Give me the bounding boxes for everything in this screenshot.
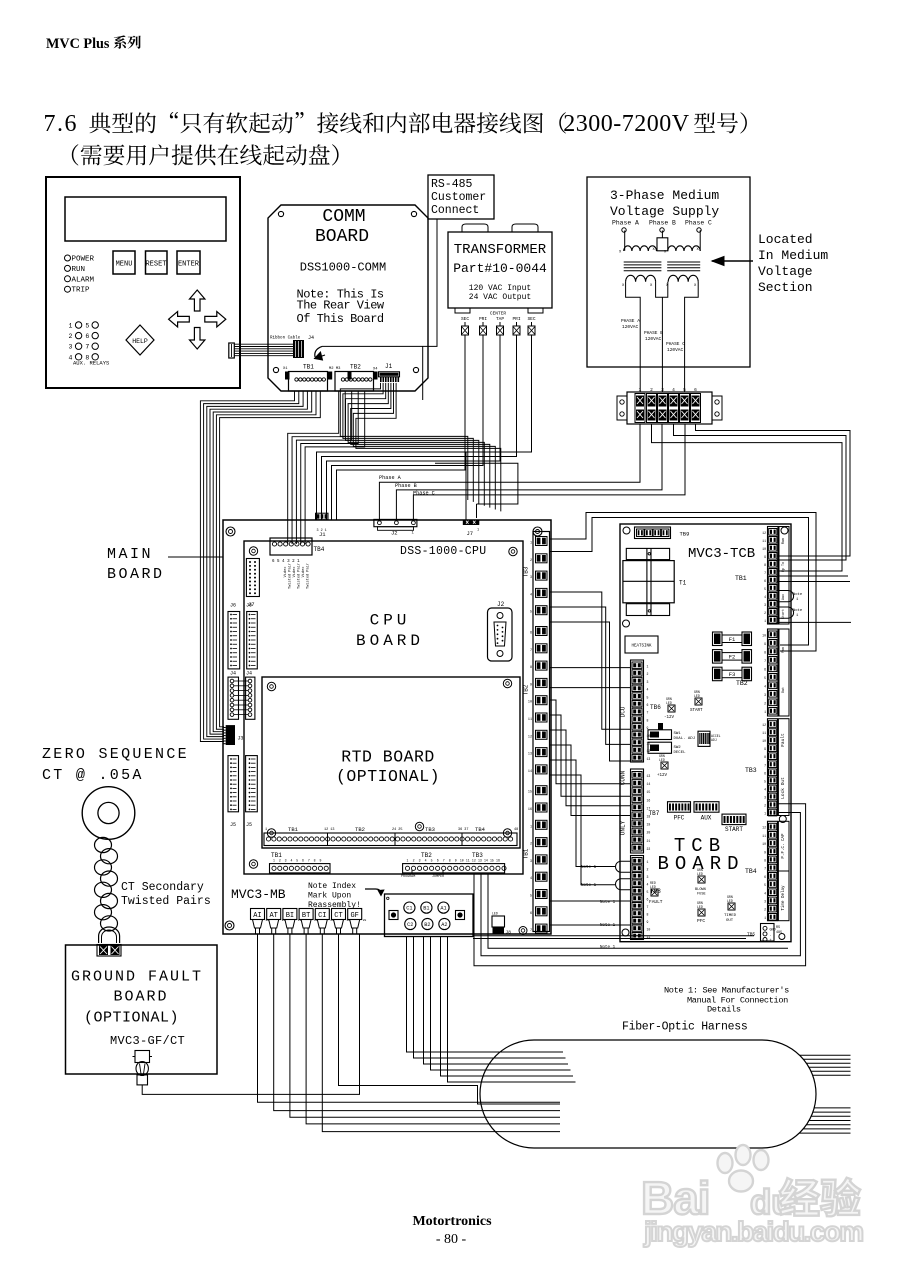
- svg-text:8: 8: [764, 859, 766, 863]
- svg-text:11: 11: [762, 834, 766, 838]
- svg-text:4: 4: [69, 354, 73, 361]
- TCB TB9 connector: [635, 527, 690, 539]
- svg-text:J5: J5: [246, 822, 252, 828]
- svg-text:J4: J4: [230, 671, 236, 677]
- svg-text:LED: LED: [666, 701, 672, 705]
- phase sense lines to J2: [379, 424, 685, 519]
- svg-text:5: 5: [764, 587, 766, 591]
- svg-text:Aux: Aux: [782, 594, 786, 600]
- ribbon cable wires to COMM board J4: [234, 344, 294, 356]
- note 1 bubbles on TB1 wires: [777, 591, 803, 619]
- fused terminal strip below supply: [617, 387, 722, 424]
- svg-text:14: 14: [528, 770, 532, 774]
- svg-text:8: 8: [647, 718, 649, 722]
- svg-text:+: +: [770, 939, 772, 943]
- bottom loop wires under boards: [474, 804, 806, 966]
- svg-text:11: 11: [528, 718, 532, 722]
- CT twisted pair: [95, 837, 120, 943]
- svg-text:12: 12: [762, 723, 766, 727]
- svg-text:Voltage: Voltage: [758, 264, 813, 279]
- svg-text:PROGRAM: PROGRAM: [401, 875, 415, 879]
- GF output plug: [133, 1051, 153, 1085]
- svg-text:4: 4: [764, 685, 766, 689]
- svg-text:FUSE: FUSE: [697, 893, 706, 897]
- CPU J4 J4 connectors: [228, 671, 255, 720]
- svg-text:F2: F2: [729, 654, 736, 661]
- svg-text:3: 3: [764, 900, 766, 904]
- svg-text:4: 4: [764, 891, 766, 895]
- fiber optic harness capsule: [480, 1040, 816, 1148]
- svg-text:11: 11: [466, 859, 470, 863]
- MVC3-MB label: [231, 887, 286, 902]
- svg-text:1: 1: [407, 859, 409, 863]
- svg-text:1: 1: [477, 529, 479, 533]
- svg-text:5: 5: [647, 695, 649, 699]
- svg-text:14: 14: [484, 859, 488, 863]
- TCB TB2 label: [736, 680, 748, 687]
- svg-text:5: 5: [530, 611, 532, 615]
- svg-text:1: 1: [530, 825, 532, 829]
- button MENU: [113, 251, 135, 274]
- TCB board outline: [620, 524, 791, 942]
- svg-text:3: 3: [764, 603, 766, 607]
- svg-text:Video: Video: [283, 567, 288, 578]
- svg-text:LED: LED: [694, 694, 700, 698]
- svg-text:24 VAC Output: 24 VAC Output: [469, 293, 531, 302]
- COMM TB1 connector: [283, 364, 332, 392]
- svg-text:AI: AI: [253, 912, 261, 920]
- svg-text:2: 2: [764, 804, 766, 808]
- wire fan COMM J1 to staircase: [340, 383, 501, 512]
- svg-text:TB4: TB4: [475, 826, 486, 833]
- svg-text:START: START: [725, 826, 743, 833]
- svg-text:7: 7: [85, 344, 89, 351]
- svg-text:5: 5: [530, 895, 532, 899]
- svg-text:1: 1: [273, 859, 275, 863]
- svg-text:9: 9: [764, 555, 766, 559]
- svg-text:Ribbon Cable: Ribbon Cable: [270, 336, 301, 341]
- svg-text:X1: X1: [283, 367, 288, 371]
- CPU bottom TB2 TB3 strip: [401, 852, 506, 879]
- TCB transformer T1: [623, 548, 687, 615]
- svg-text:6: 6: [764, 668, 766, 672]
- CPU J2 DB9 connector: [488, 601, 513, 661]
- svg-text:4: 4: [672, 387, 675, 393]
- CT toroid: [82, 787, 135, 840]
- COMM board J4 ribbon connector: [270, 335, 314, 358]
- COMM TB2 connector: [329, 364, 378, 392]
- svg-text:CPU: CPU: [370, 612, 411, 630]
- svg-text:LED: LED: [697, 872, 703, 876]
- ground fault board labels: [71, 969, 203, 1048]
- svg-text:HEATSINK: HEATSINK: [631, 645, 652, 649]
- TCB indicators near TB8: [649, 868, 737, 924]
- svg-text:6: 6: [764, 771, 766, 775]
- svg-text:TB7: TB7: [649, 810, 660, 817]
- wire bundle COMM TB2 to CPU TB4: [288, 391, 365, 544]
- svg-text:3: 3: [530, 576, 532, 580]
- note 1 bubbles left of TCB: [581, 861, 630, 950]
- wires strip to TCB TB1 (right): [652, 424, 851, 571]
- svg-text:RS-485: RS-485: [431, 178, 473, 191]
- CPU J5 J5 connectors: [228, 756, 257, 828]
- svg-text:MAIN: MAIN: [107, 546, 153, 563]
- svg-text:2: 2: [647, 868, 649, 872]
- svg-text:Video: Video: [301, 567, 306, 578]
- svg-text:1: 1: [69, 323, 73, 330]
- CPU board DSS-1000-CPU outline: [244, 541, 733, 874]
- svg-text:BOARD: BOARD: [356, 632, 424, 650]
- svg-text:Twisted Pairs: Twisted Pairs: [121, 895, 211, 908]
- svg-text:TB1: TB1: [523, 848, 530, 859]
- svg-text:2: 2: [530, 843, 532, 847]
- svg-text:120 VAC Input: 120 VAC Input: [469, 284, 531, 293]
- svg-text:5: 5: [647, 890, 649, 894]
- svg-text:2: 2: [764, 908, 766, 912]
- svg-text:24 25: 24 25: [392, 828, 403, 832]
- svg-text:TB3: TB3: [523, 566, 530, 577]
- svg-text:OUT: OUT: [726, 919, 734, 923]
- svg-text:16: 16: [496, 859, 500, 863]
- svg-text:10: 10: [762, 842, 766, 846]
- svg-text:2: 2: [530, 559, 532, 563]
- svg-text:TB3: TB3: [425, 826, 435, 833]
- svg-text:ADJ: ADJ: [711, 738, 717, 742]
- CT secondary text: [121, 881, 211, 908]
- staircase horizontals joining transformer wires: [435, 452, 518, 520]
- TCB TB5 block: [747, 924, 782, 944]
- svg-text:8: 8: [314, 859, 316, 863]
- transformer terminals (bolts): [462, 322, 536, 335]
- CPU J8 connector and LED: [492, 912, 527, 936]
- svg-text:16: 16: [647, 798, 651, 802]
- svg-text:In Medium: In Medium: [758, 248, 828, 263]
- svg-text:5: 5: [296, 859, 298, 863]
- svg-text:LED: LED: [697, 905, 703, 909]
- svg-text:TIMED: TIMED: [724, 914, 737, 918]
- svg-text:JUMPER: JUMPER: [432, 875, 444, 879]
- svg-text:9: 9: [647, 920, 649, 924]
- svg-text:3: 3: [764, 795, 766, 799]
- svg-text:TB5: TB5: [747, 932, 755, 938]
- svg-text:7: 7: [530, 649, 532, 653]
- svg-text:15: 15: [647, 790, 651, 794]
- svg-text:6: 6: [530, 912, 532, 916]
- RTD board outline: [262, 677, 520, 848]
- svg-text:AUX. RELAYS: AUX. RELAYS: [73, 360, 110, 367]
- svg-text:1: 1: [530, 542, 532, 546]
- svg-text:GND: GND: [770, 929, 776, 933]
- svg-text:9: 9: [455, 859, 457, 863]
- svg-text:1: 1: [647, 665, 649, 669]
- note 1 manufacturer text: [664, 986, 789, 1015]
- svg-text:1: 1: [764, 812, 766, 816]
- GF wire to MB GF plug: [142, 934, 359, 1094]
- footer Motortronics: [412, 1214, 492, 1247]
- svg-text:2: 2: [764, 702, 766, 706]
- svg-text:4: 4: [647, 688, 649, 692]
- svg-text:C2: C2: [407, 922, 413, 928]
- svg-text:10: 10: [528, 701, 532, 705]
- svg-text:AUX: AUX: [701, 815, 712, 822]
- svg-text:CI: CI: [318, 912, 326, 920]
- svg-text:CONN: CONN: [620, 770, 627, 785]
- svg-text:Phase C: Phase C: [413, 491, 435, 497]
- MB bottom plugs AI AT BI BT CI CT GF: [251, 909, 367, 935]
- svg-text:5: 5: [683, 387, 686, 393]
- svg-text:13: 13: [528, 753, 532, 757]
- svg-text:5: 5: [85, 323, 89, 330]
- svg-text:ONLY: ONLY: [620, 820, 627, 835]
- TCB enclosure wire loop inner: [550, 518, 809, 646]
- svg-text:3: 3: [647, 680, 649, 684]
- svg-text:J4: J4: [308, 335, 314, 341]
- svg-text:12: 12: [762, 826, 766, 830]
- svg-text:T1: T1: [679, 580, 687, 587]
- arrow keys cluster: [169, 290, 226, 349]
- svg-text:6 5 4 3 2 1: 6 5 4 3 2 1: [272, 560, 300, 564]
- svg-text:Part#10-0044: Part#10-0044: [453, 261, 547, 276]
- svg-text:TB9: TB9: [680, 531, 690, 538]
- svg-text:7: 7: [647, 711, 649, 715]
- svg-text:+12V: +12V: [657, 774, 668, 778]
- located in medium voltage section note: [712, 232, 828, 295]
- svg-text:4: 4: [764, 595, 766, 599]
- svg-text:7: 7: [764, 571, 766, 575]
- fiber optic round connector block C1 B1 A1 C2 B2 A2: [385, 894, 474, 937]
- svg-text:3-Phase Medium: 3-Phase Medium: [610, 188, 719, 203]
- svg-text:120VAC: 120VAC: [667, 347, 684, 353]
- svg-text:Note Index: Note Index: [308, 882, 356, 891]
- TCB small parts middle: [648, 690, 721, 778]
- TCB TB3 label: [745, 767, 757, 774]
- TCB BOARD label: [657, 835, 744, 875]
- svg-text:CENTER: CENTER: [490, 311, 507, 317]
- RTD bottom terminal strip TB1-TB4: [264, 826, 518, 846]
- TCB left strip TB6: [620, 660, 662, 762]
- svg-text:PHASE A: PHASE A: [621, 318, 640, 324]
- svg-text:10: 10: [762, 547, 766, 551]
- svg-text:TAP: TAP: [496, 316, 504, 322]
- svg-text:TB2: TB2: [736, 680, 748, 687]
- svg-text:J1: J1: [385, 363, 393, 370]
- svg-text:Twisted Pair: Twisted Pair: [297, 563, 302, 589]
- wires MB right strip to TCB left area: [550, 592, 631, 761]
- wire RS-485 to COMM board: [322, 219, 437, 400]
- svg-text:C1: C1: [406, 906, 412, 912]
- svg-text:RUN: RUN: [72, 266, 86, 274]
- svg-text:DSS-1000-CPU: DSS-1000-CPU: [400, 545, 486, 558]
- svg-text:A1: A1: [440, 906, 446, 912]
- TCB enclosure wire loop outer: [550, 513, 817, 652]
- fuses F1 F2 F3: [713, 632, 752, 681]
- wires MB plugs to fiber harness: [258, 934, 561, 1132]
- MB right strips TB3 TB2 TB1 (vertical): [523, 532, 550, 934]
- svg-text:2: 2: [69, 333, 73, 340]
- CPU J7 connector (vertical): [246, 559, 259, 609]
- svg-text:7.6: 7.6: [44, 111, 79, 137]
- svg-text:BOARD: BOARD: [107, 566, 165, 583]
- svg-text:28: 28: [363, 919, 367, 922]
- svg-text:Lock Out: Lock Out: [780, 777, 786, 799]
- svg-text:PHASE C: PHASE C: [666, 341, 685, 347]
- svg-text:J8: J8: [506, 930, 512, 936]
- svg-text:PFC: PFC: [697, 918, 705, 924]
- svg-text:11: 11: [762, 731, 766, 735]
- svg-text:Located: Located: [758, 232, 813, 247]
- twisted pair rotated labels under TB4: [283, 563, 311, 589]
- svg-text:TB6: TB6: [650, 704, 661, 711]
- svg-text:J4: J4: [246, 671, 252, 677]
- svg-text:Fiber-Optic Harness: Fiber-Optic Harness: [622, 1021, 747, 1034]
- transformer secondary/primary wires going down-left: [317, 335, 532, 520]
- svg-text:TB4: TB4: [745, 868, 757, 875]
- svg-text:COMM: COMM: [322, 207, 365, 227]
- MVC3-TCB label: [688, 546, 755, 562]
- svg-text:RS: RS: [776, 926, 780, 930]
- svg-text:FAULT: FAULT: [649, 899, 663, 905]
- TCB TB1 label: [735, 575, 747, 582]
- svg-text:DUAL. ADJ: DUAL. ADJ: [674, 737, 696, 741]
- svg-text:TB1: TB1: [735, 575, 747, 582]
- CPU J6 J6 connectors: [228, 603, 257, 669]
- svg-text:Motortronics: Motortronics: [412, 1214, 492, 1229]
- TCB left strip TB8: [620, 820, 662, 939]
- svg-text:TB3: TB3: [745, 767, 757, 774]
- svg-text:3: 3: [661, 387, 664, 393]
- svg-text:2: 2: [279, 859, 281, 863]
- svg-text:6: 6: [85, 333, 89, 340]
- svg-text:jingyan.baidu.com: jingyan.baidu.com: [643, 1216, 863, 1247]
- svg-text:4: 4: [425, 859, 427, 863]
- svg-text:22: 22: [647, 847, 651, 851]
- svg-text:GF: GF: [350, 912, 358, 920]
- svg-text:MENU: MENU: [116, 261, 133, 269]
- aux relay LEDs 1-8: [69, 322, 110, 367]
- svg-text:J2: J2: [497, 601, 505, 608]
- svg-text:1: 1: [647, 860, 649, 864]
- wire bundle COMM TB1 to J3 (left side): [200, 391, 320, 742]
- svg-text:7: 7: [764, 659, 766, 663]
- svg-text:Voltage Supply: Voltage Supply: [610, 204, 719, 219]
- svg-text:7: 7: [764, 763, 766, 767]
- svg-text:Phase B: Phase B: [395, 483, 417, 489]
- svg-text:ZERO SEQUENCE: ZERO SEQUENCE: [42, 746, 189, 763]
- svg-text:SW1: SW1: [674, 732, 682, 736]
- svg-text:BI: BI: [286, 912, 294, 920]
- svg-text:M2 M3: M2 M3: [329, 367, 341, 371]
- svg-text:12: 12: [762, 531, 766, 535]
- COMM board outline: [268, 205, 428, 391]
- svg-text:5: 5: [431, 859, 433, 863]
- harness right wires upper: [800, 1055, 851, 1075]
- svg-text:ENTER: ENTER: [178, 261, 200, 269]
- svg-text:14: 14: [647, 782, 651, 786]
- svg-text:5: 5: [764, 779, 766, 783]
- TCB TB1 strip: [762, 527, 789, 625]
- svg-text:DSS1000-COMM: DSS1000-COMM: [300, 261, 386, 275]
- svg-text:MVC Plus: MVC Plus: [46, 36, 110, 52]
- svg-text:6: 6: [302, 859, 304, 863]
- svg-text:6: 6: [647, 703, 649, 707]
- svg-text:Phase C: Phase C: [685, 220, 712, 227]
- TCB TB2 strip: [762, 629, 789, 716]
- svg-text:15: 15: [490, 859, 494, 863]
- svg-text:8: 8: [764, 651, 766, 655]
- svg-text:Time Delay: Time Delay: [781, 885, 786, 911]
- svg-text:Section: Section: [758, 280, 813, 295]
- svg-text:10: 10: [762, 739, 766, 743]
- svg-text:(OPTIONAL): (OPTIONAL): [84, 1010, 179, 1027]
- svg-text:36 37: 36 37: [458, 828, 469, 832]
- svg-text:3: 3: [530, 860, 532, 864]
- COMM board title text: [297, 207, 387, 326]
- svg-text:TB4: TB4: [314, 546, 325, 553]
- svg-text:8: 8: [764, 755, 766, 759]
- svg-text:3: 3: [69, 344, 73, 351]
- svg-text:10: 10: [762, 634, 766, 638]
- svg-text:2: 2: [413, 859, 415, 863]
- svg-text:F1: F1: [729, 636, 736, 643]
- svg-text:MVC3-GF/CT: MVC3-GF/CT: [110, 1034, 185, 1048]
- svg-text:B2: B2: [424, 922, 430, 928]
- wire fan MB TB2 to TCB TB7 and note bubbles: [550, 700, 631, 885]
- svg-text:13: 13: [478, 859, 482, 863]
- svg-text:12 13: 12 13: [324, 828, 335, 832]
- svg-text:11: 11: [762, 539, 766, 543]
- svg-text:J7: J7: [467, 530, 474, 537]
- svg-text:J1: J1: [319, 531, 326, 538]
- svg-text:-: -: [770, 934, 772, 938]
- svg-text:2: 2: [647, 672, 649, 676]
- svg-text:-12V: -12V: [664, 716, 675, 720]
- svg-text:4: 4: [647, 883, 649, 887]
- svg-text:6: 6: [437, 859, 439, 863]
- svg-text:J6: J6: [246, 603, 252, 609]
- svg-text:120VAC: 120VAC: [622, 324, 639, 330]
- svg-text:Details: Details: [707, 1005, 741, 1015]
- svg-text:SW2: SW2: [674, 746, 682, 750]
- svg-text:CT Secondary: CT Secondary: [121, 881, 204, 894]
- ground fault board outline: [66, 945, 218, 1074]
- svg-text:Phase A: Phase A: [379, 475, 402, 481]
- title line 1: [44, 111, 747, 137]
- svg-text:5: 5: [764, 883, 766, 887]
- CT connector at GF board: [97, 945, 121, 957]
- PFC AUX START connectors: [668, 802, 747, 833]
- svg-text:BLOWN: BLOWN: [695, 888, 706, 892]
- svg-text:3: 3: [419, 859, 421, 863]
- svg-text:MVC3-TCB: MVC3-TCB: [688, 546, 755, 562]
- phase input labels and terminals: [612, 220, 712, 233]
- CPU BOARD label: [356, 612, 424, 651]
- svg-text:2300-7200V: 2300-7200V: [563, 111, 689, 137]
- svg-text:J5: J5: [230, 822, 236, 828]
- button ENTER: [177, 251, 200, 274]
- RS-485 customer connect box: [428, 175, 494, 219]
- svg-text:16: 16: [528, 808, 532, 812]
- svg-text:P.F.C. CAP: P.F.C. CAP: [782, 833, 786, 859]
- svg-text:Start: Start: [781, 609, 786, 619]
- svg-text:7: 7: [530, 929, 532, 933]
- svg-text:X4: X4: [373, 368, 378, 372]
- svg-text:TB1: TB1: [303, 364, 314, 371]
- CPU J3 connector: [223, 725, 244, 745]
- svg-text:START: START: [690, 709, 703, 713]
- svg-text:GROUND FAULT: GROUND FAULT: [71, 969, 203, 986]
- svg-text:120VAC: 120VAC: [645, 336, 662, 342]
- TCB TB4 strip: [762, 821, 789, 920]
